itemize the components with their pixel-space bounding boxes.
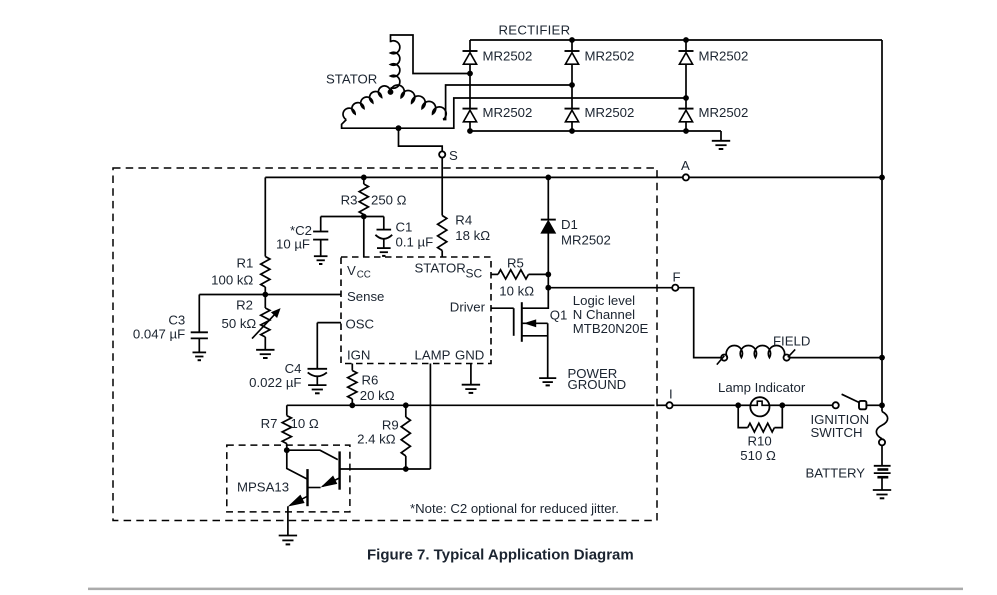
svg-text:STATOR: STATOR (415, 261, 466, 276)
node R5 junction (545, 272, 551, 278)
pin label Driver (450, 300, 486, 315)
wire rectifier top bus (470, 39, 882, 41)
svg-text:SC: SC (466, 267, 483, 281)
label D1 MR2502 (561, 233, 611, 248)
wire phase 1 (391, 35, 471, 74)
label C4 (285, 361, 302, 376)
svg-text:STATOR: STATOR (326, 72, 377, 87)
pin label SC (466, 267, 483, 281)
capacitor C2 10uF (313, 217, 328, 256)
node top bus leg2 (569, 37, 575, 43)
label 18 kOhm (455, 228, 490, 243)
emitter Q2a (288, 495, 308, 536)
stator winding left coil (343, 86, 390, 120)
label 20 kOhm (360, 388, 395, 403)
svg-text:S: S (449, 148, 458, 163)
node stator center (388, 89, 394, 95)
svg-text:D1: D1 (561, 217, 578, 232)
label MR2502 top 3 (699, 49, 749, 64)
svg-text:MTB20N20E: MTB20N20E (573, 321, 649, 336)
ground rectifier (712, 141, 730, 149)
ground C1 (377, 248, 391, 256)
capacitor C1 0.1uF (375, 217, 392, 248)
svg-text:100 kΩ: 100 kΩ (211, 273, 253, 288)
transistor Q1 body stub (522, 319, 548, 327)
svg-text:LAMP: LAMP (415, 348, 451, 363)
regulator outer dashed box (113, 168, 657, 521)
label 250 Ohm (371, 193, 407, 208)
wire diode leg 1 lower (469, 122, 471, 131)
diode D_bot3 MR2502 (679, 109, 694, 122)
svg-text:50 kΩ: 50 kΩ (222, 316, 257, 331)
svg-text:Lamp Indicator: Lamp Indicator (718, 380, 806, 395)
label POWER (568, 366, 618, 381)
svg-text:510 Ω: 510 Ω (740, 448, 776, 463)
svg-text:10 kΩ: 10 kΩ (499, 284, 534, 299)
wire Vcc node to C2 (321, 216, 364, 218)
label 0.022 uF (249, 375, 301, 390)
svg-text:Figure 7. Typical Application: Figure 7. Typical Application Diagram (367, 547, 634, 564)
wire source to ground (547, 323, 549, 378)
svg-text:Driver: Driver (450, 300, 486, 315)
wire Vcc pin (363, 217, 365, 258)
wire collector to Q2a (287, 450, 307, 479)
terminal I (666, 402, 672, 408)
wire I line outside (657, 404, 666, 406)
diode D_top3 MR2502 (679, 51, 694, 64)
label RECTIFIER (499, 22, 571, 37)
svg-text:10 Ω: 10 Ω (291, 416, 319, 431)
svg-text:SWITCH: SWITCH (811, 425, 863, 440)
node darlington collector (284, 447, 290, 453)
inductor field coil (726, 346, 784, 358)
ground C4 (308, 385, 326, 393)
label 10 uF (276, 237, 310, 252)
wire GND pin (470, 364, 472, 385)
pin label GND (455, 348, 484, 363)
wire diode leg 3 lower (685, 122, 687, 131)
svg-text:10 µF: 10 µF (276, 237, 310, 252)
svg-text:Sense: Sense (347, 289, 384, 304)
ground C3 (192, 352, 206, 360)
label SWITCH (811, 425, 863, 440)
wire drain (522, 288, 548, 309)
node Sense divider (262, 292, 268, 298)
wire I line (287, 404, 655, 406)
label *C2 (290, 223, 312, 238)
transistor Q2 MPSA13 dashed box (227, 445, 350, 512)
label 0.1 uF (396, 235, 434, 250)
diode D_bot2 MR2502 (565, 109, 580, 122)
battery B1 (874, 466, 891, 490)
label 0.047 uF (133, 327, 185, 342)
node leg 2 bottom (569, 128, 575, 134)
label R1 (236, 256, 253, 271)
svg-text:C1: C1 (396, 220, 413, 235)
wire lamp to switch (782, 404, 832, 406)
node R6 tap (349, 402, 355, 408)
pin label VCC (347, 263, 371, 281)
svg-text:OSC: OSC (346, 317, 375, 332)
ground R2 (256, 350, 274, 358)
resistor R9 2.4k (401, 405, 410, 469)
wire lamp-base line (340, 468, 431, 470)
label S (449, 148, 458, 163)
wire switch to bus (866, 404, 882, 406)
svg-text:C3: C3 (168, 313, 185, 328)
footer rule (88, 588, 963, 591)
label R5 (507, 256, 524, 271)
svg-text:I: I (669, 387, 673, 402)
label Lamp Indicator (718, 380, 806, 395)
label 50 kOhm (222, 316, 257, 331)
tick field left (717, 356, 725, 365)
label R10 (748, 434, 772, 449)
svg-text:MR2502: MR2502 (483, 105, 533, 120)
wire F line (548, 287, 672, 289)
svg-text:18 kΩ: 18 kΩ (455, 228, 490, 243)
svg-text:MR2502: MR2502 (585, 49, 635, 64)
wire IGN pin (351, 364, 353, 371)
svg-text:RECTIFIER: RECTIFIER (499, 22, 571, 37)
svg-text:FIELD: FIELD (773, 334, 810, 349)
label R6 (362, 373, 379, 388)
emitter Q2b to base Q2a (308, 476, 340, 488)
wire S to R4 (441, 158, 443, 216)
node phase 1 (467, 71, 473, 77)
ground Q1 source (539, 378, 556, 385)
svg-text:GROUND: GROUND (568, 377, 627, 392)
wire Sense line (199, 294, 341, 296)
label R2 (236, 298, 253, 313)
wire I to lamp (673, 404, 739, 406)
label FIELD (773, 334, 810, 349)
wire diode leg 1 upper (469, 40, 471, 51)
wire diode leg 1 mid (469, 64, 471, 108)
label BATTERY (806, 466, 866, 481)
stator winding right coil (391, 85, 447, 119)
label C3 (168, 313, 185, 328)
wire field to bus (790, 357, 882, 359)
wire R5 to node (529, 273, 549, 275)
label Q1 (550, 308, 568, 323)
node R9 bottom (403, 466, 409, 472)
svg-text:F: F (673, 270, 681, 285)
label MR2502 bottom 2 (585, 105, 635, 120)
wire R1 top (264, 177, 266, 256)
svg-text:R3: R3 (341, 193, 358, 208)
node top bus leg3 (683, 37, 689, 43)
svg-text:A: A (681, 158, 690, 173)
caption Figure 7 (367, 547, 634, 564)
terminal S (439, 151, 445, 157)
wire rectifier bottom bus (470, 130, 721, 132)
wire A line to R3 (363, 177, 365, 184)
resistor R4 18k (438, 216, 447, 251)
wire D1 branch upper (547, 177, 549, 219)
svg-text:R10: R10 (748, 434, 772, 449)
wire Driver to gate (491, 307, 514, 309)
wire link to battery (881, 446, 883, 466)
stator winding top coil (391, 41, 400, 88)
wire A line left (265, 176, 683, 178)
diode D_top2 MR2502 (565, 51, 580, 64)
label I (669, 387, 673, 402)
svg-text:MR2502: MR2502 (699, 49, 749, 64)
wire S stub (399, 128, 443, 151)
svg-text:0.022 µF: 0.022 µF (249, 375, 301, 390)
node A line R3 tap (361, 175, 367, 181)
node lamp right (779, 402, 785, 408)
label GROUND (568, 377, 627, 392)
label MR2502 top 2 (585, 49, 635, 64)
resistor R5 10k (498, 270, 529, 279)
label F (673, 270, 681, 285)
label 10 Ohm (291, 416, 319, 431)
svg-text:0.1 µF: 0.1 µF (396, 235, 434, 250)
svg-text:R4: R4 (455, 213, 472, 228)
transistor Q1 source stub (522, 335, 548, 337)
ground MPSA13 emitter (279, 536, 297, 545)
resistor R2 50k variable (261, 295, 270, 350)
resistor R7 10 (282, 405, 291, 450)
ground battery (873, 490, 891, 498)
svg-text:Q1: Q1 (550, 308, 568, 323)
pin label LAMP (415, 348, 451, 363)
node leg 3 bottom (683, 128, 689, 134)
label IGNITION (811, 412, 870, 427)
svg-text:*Note: C2 optional for reduced: *Note: C2 optional for reduced jitter. (410, 501, 619, 516)
wire rectifier ground stem (720, 131, 722, 141)
ground C2 (314, 256, 328, 264)
label MR2502 bottom 3 (699, 105, 749, 120)
svg-text:MR2502: MR2502 (561, 233, 611, 248)
transistor Q1 gate bar (513, 308, 515, 336)
arrow R2 wiper (252, 308, 281, 339)
wire LAMP pin (429, 364, 431, 470)
ground IC GND (462, 385, 480, 393)
svg-text:R2: R2 (236, 298, 253, 313)
lamp indicator bulb (750, 397, 769, 416)
label D1 (561, 217, 578, 232)
wire diode leg 3 mid (685, 64, 687, 108)
capacitor C4 0.022uF (308, 323, 328, 385)
resistor R10 510 shunt (738, 405, 782, 432)
label 510 Ohm (740, 448, 776, 463)
svg-text:2.4 kΩ: 2.4 kΩ (357, 432, 396, 447)
svg-text:R6: R6 (362, 373, 379, 388)
wire F to field (678, 288, 721, 358)
node R9 top (403, 402, 409, 408)
svg-text:V: V (347, 263, 356, 278)
terminal switch right (859, 401, 866, 409)
transistor Q2b base bar (338, 451, 340, 489)
label N Channel (573, 307, 635, 322)
terminal A (683, 174, 689, 180)
label STATOR (326, 72, 377, 87)
wire A line right (689, 176, 882, 178)
svg-text:C4: C4 (285, 361, 302, 376)
diode D_top1 MR2502 (463, 51, 478, 64)
svg-text:IGN: IGN (347, 348, 370, 363)
label C1 (396, 220, 413, 235)
wire to F node (547, 274, 549, 287)
resistor R6 20k (348, 371, 357, 400)
node leg 1 bottom (467, 128, 473, 134)
wire phase 3 (342, 98, 686, 128)
label R3 (341, 193, 358, 208)
svg-text:BATTERY: BATTERY (806, 466, 866, 481)
pin label IGN (347, 348, 370, 363)
switch blade (842, 394, 860, 402)
label MR2502 top 1 (483, 49, 533, 64)
wire diode leg 3 upper (685, 40, 687, 51)
wire diode leg 2 lower (571, 122, 573, 131)
node F junction (545, 285, 551, 291)
svg-text:Logic level: Logic level (573, 293, 635, 308)
svg-text:MR2502: MR2502 (585, 105, 635, 120)
svg-text:MR2502: MR2502 (699, 105, 749, 120)
diode D1 MR2502 (541, 220, 556, 233)
terminal field right (784, 355, 790, 361)
label R9 (382, 418, 399, 433)
wire lamp left lead (738, 404, 750, 406)
wire collector to Q2b (287, 450, 338, 459)
svg-text:R9: R9 (382, 418, 399, 433)
terminal switch left (833, 402, 839, 408)
node switch bus (879, 402, 885, 408)
wire diode leg 2 mid (571, 64, 573, 108)
svg-text:N Channel: N Channel (573, 307, 635, 322)
label Logic level (573, 293, 635, 308)
label A (681, 158, 690, 173)
capacitor C3 0.047uF (191, 295, 208, 353)
label MPSA13 (237, 480, 289, 495)
node field bus (879, 355, 885, 361)
node phase 3 (683, 95, 689, 101)
svg-text:GND: GND (455, 348, 484, 363)
svg-text:0.047 µF: 0.047 µF (133, 327, 185, 342)
node A line right bus (879, 175, 885, 181)
svg-text:R1: R1 (236, 256, 253, 271)
node Vcc rail (361, 214, 367, 220)
transistor Q2a base bar (306, 469, 308, 506)
svg-text:MPSA13: MPSA13 (237, 480, 289, 495)
wire R3 to Vcc node (363, 215, 365, 217)
op-amp U1 regulator IC dashed box (341, 257, 491, 364)
svg-text:CC: CC (357, 270, 371, 281)
wire R6 bottom (351, 399, 353, 405)
pin label STATOR (415, 261, 466, 276)
diode D_bot1 MR2502 (463, 109, 478, 122)
wire OSC line (317, 322, 341, 324)
svg-text:R7: R7 (261, 416, 278, 431)
wire SC pin to R5 (491, 273, 498, 275)
label 100 kOhm (211, 273, 253, 288)
wire right supply bus (881, 40, 883, 412)
node lamp left (735, 402, 741, 408)
label 10 kOhm (499, 284, 534, 299)
tick field right (788, 349, 795, 357)
wire R1 bottom (264, 287, 266, 295)
pin label OSC (346, 317, 375, 332)
label R7 (261, 416, 278, 431)
node A line D1 tap (545, 175, 551, 181)
svg-text:250 Ω: 250 Ω (371, 193, 407, 208)
label MR2502 bottom 1 (483, 105, 533, 120)
wire lamp right lead (769, 404, 782, 406)
label 2.4 kOhm (357, 432, 396, 447)
terminal field left (721, 355, 727, 361)
label MTB20N20E (573, 321, 649, 336)
terminal F (672, 285, 678, 291)
wire phase 2 (443, 85, 572, 120)
resistor R1 100k (261, 257, 270, 288)
svg-text:R5: R5 (507, 256, 524, 271)
svg-text:20 kΩ: 20 kΩ (360, 388, 395, 403)
svg-text:MR2502: MR2502 (483, 49, 533, 64)
pin label Sense (347, 289, 384, 304)
label R4 (455, 213, 472, 228)
wire R4 to STATOR pin (441, 251, 443, 258)
transistor Q1 channel bar (521, 302, 523, 342)
node stator neutral tap (396, 125, 402, 131)
wire Vcc node to C1 (364, 216, 384, 218)
node phase 2 (569, 82, 575, 88)
resistor R3 250 (359, 184, 368, 215)
fusible link squiggle (876, 412, 887, 439)
terminal fusible link (879, 439, 885, 445)
wire D1 branch lower (547, 233, 549, 275)
note text (410, 501, 619, 516)
wire diode leg 2 upper (571, 40, 573, 51)
